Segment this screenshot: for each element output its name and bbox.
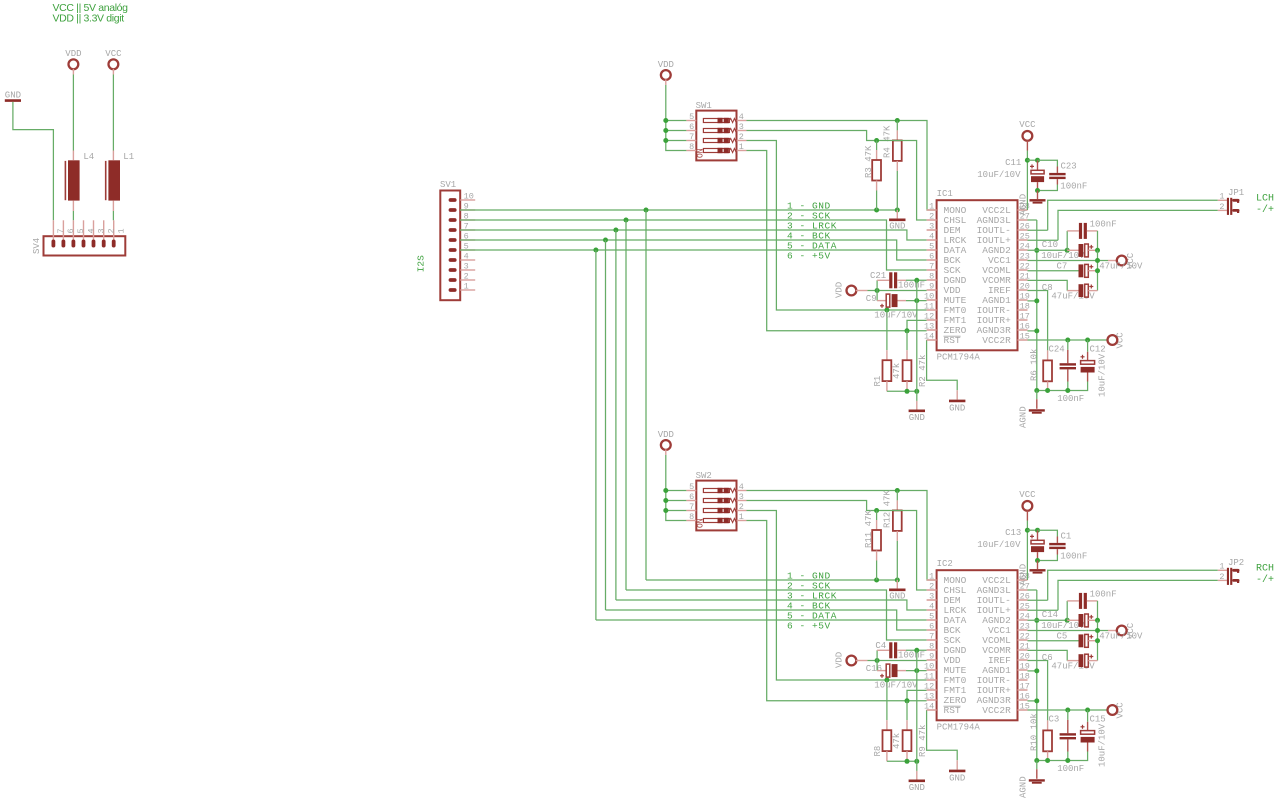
- svg-text:R8: R8: [873, 746, 883, 757]
- inductor L4: [65, 151, 94, 212]
- wire SW1 pin 3 to IC1 CHSL: [747, 131, 927, 221]
- junction VDD/SW1 pin 5: [663, 118, 668, 123]
- net label 2 - SCK: [787, 581, 831, 592]
- capacitor C10 10uF/10V: [1041, 240, 1097, 261]
- wire C16 to IC2 pin 10 MUTE: [906, 670, 927, 672]
- wire GND to SV4 pin 7: [13, 102, 54, 220]
- svg-text:6 - +5V: 6 - +5V: [787, 621, 831, 632]
- svg-text:1: 1: [117, 228, 127, 233]
- svg-text:C14: C14: [1042, 610, 1058, 620]
- svg-text:5: 5: [689, 112, 694, 122]
- capacitor C12 10uF/10V: [1068, 340, 1108, 397]
- junction GND2 / R12 / gnd symbol: [895, 578, 900, 583]
- svg-text:2: 2: [929, 582, 934, 592]
- svg-text:IC2: IC2: [937, 559, 953, 569]
- wire DATA drop to channel 2 (IC2 pin 5): [596, 250, 927, 620]
- junction SCK drop: [624, 218, 629, 223]
- connector SV4: [32, 220, 127, 255]
- supply VCC (IC1 VCC1): [1028, 252, 1137, 269]
- svg-text:LCH: LCH: [1256, 193, 1274, 204]
- svg-text:7: 7: [929, 632, 934, 642]
- svg-text:VDD: VDD: [658, 430, 674, 440]
- junction VCC2R/C12: [1085, 338, 1090, 343]
- wire C4 to IC2 pin 8 DGND: [906, 649, 927, 651]
- junction AGND rail / AGND symbol: [1034, 758, 1039, 763]
- svg-text:VCC: VCC: [1019, 490, 1036, 500]
- wire IC1 IOUTL+ to JP1 pin 2: [1028, 210, 1218, 240]
- wire R11 to GND rail: [876, 561, 878, 581]
- wire VCC to IC2 pin 28: [1026, 521, 1028, 581]
- svg-text:47k: 47k: [892, 733, 902, 749]
- ground AGND (analog): [1018, 761, 1045, 799]
- svg-text:R10 10k: R10 10k: [1029, 713, 1039, 751]
- wire VCC to C11: [1027, 159, 1037, 161]
- svg-text:C9: C9: [866, 294, 877, 304]
- net label 3 - LRCK: [787, 591, 837, 602]
- wire SW1 pin 1 to IC1 ZERO: [747, 151, 927, 331]
- svg-text:1: 1: [464, 282, 469, 292]
- wire IC1 FMT1 jog: [907, 320, 927, 330]
- svg-text:100nF: 100nF: [898, 650, 925, 660]
- svg-text:10uF/10V: 10uF/10V: [977, 540, 1021, 550]
- junction MONO/R12: [895, 488, 900, 493]
- wire VCC to L1: [112, 75, 114, 151]
- svg-text:3: 3: [464, 262, 469, 272]
- svg-text:R1: R1: [873, 376, 883, 387]
- svg-text:GND: GND: [889, 591, 905, 601]
- svg-text:1: 1: [739, 142, 744, 152]
- svg-text:6: 6: [66, 228, 76, 233]
- supply VCC (header): [105, 49, 122, 75]
- supply VDD (IC2 pin 9): [835, 652, 868, 668]
- svg-text:100nF: 100nF: [1060, 552, 1087, 562]
- svg-text:7: 7: [929, 262, 934, 272]
- junction VCC1: [1095, 628, 1100, 633]
- junction C10 right: [1095, 248, 1100, 253]
- ground GND (RST): [949, 390, 965, 413]
- svg-text:3: 3: [929, 222, 934, 232]
- svg-text:6: 6: [689, 122, 694, 132]
- wire C21 to IC1 pin 8 DGND: [906, 279, 927, 281]
- junction AGND rail / AGND symbol: [1034, 388, 1039, 393]
- junction DGND/C4: [914, 648, 919, 653]
- svg-text:ON: ON: [696, 518, 705, 528]
- junction FMT0/R8: [884, 678, 889, 683]
- net label 4 - BCK: [787, 231, 831, 242]
- wire VCC to IC1 pin 28: [1026, 151, 1028, 211]
- net label 5 - DATA: [787, 611, 837, 622]
- svg-text:-/+: -/+: [1256, 574, 1274, 586]
- net label 2 - SCK: [787, 211, 831, 222]
- svg-text:SW2: SW2: [696, 471, 712, 481]
- svg-text:IC1: IC1: [937, 189, 953, 199]
- supply VCC (IC2 pin 15): [1028, 702, 1126, 719]
- svg-text:VDD: VDD: [835, 652, 845, 668]
- svg-text:8: 8: [929, 642, 934, 652]
- inductor L1: [106, 151, 134, 212]
- svg-text:R4 47K: R4 47K: [882, 125, 892, 158]
- junction VCC2R/C24: [1065, 338, 1070, 343]
- svg-text:10: 10: [924, 662, 934, 672]
- svg-text:AGND: AGND: [1018, 776, 1028, 798]
- svg-text:10uF/10V: 10uF/10V: [1041, 621, 1085, 631]
- dip-switch SW2: [686, 471, 746, 530]
- capacitor C21 100nF: [870, 271, 925, 291]
- junction C14 left: [1065, 618, 1070, 623]
- capacitor C5 47uF/10V: [1028, 632, 1144, 648]
- svg-text:4: 4: [929, 232, 934, 242]
- svg-text:C3: C3: [1049, 715, 1060, 725]
- svg-text:C21: C21: [870, 271, 886, 281]
- wire IC2 IOUTL+ to JP2 pin 2: [1028, 580, 1218, 610]
- svg-text:6: 6: [929, 622, 934, 632]
- svg-text:18: 18: [1020, 672, 1030, 682]
- svg-text:4: 4: [739, 112, 744, 122]
- jumper JP1: [1218, 188, 1244, 215]
- svg-text:-/+: -/+: [1256, 204, 1274, 216]
- svg-text:9: 9: [929, 652, 934, 662]
- junction rail/DGND: [914, 759, 919, 764]
- svg-text:I2S: I2S: [416, 255, 427, 272]
- svg-text:3: 3: [739, 122, 744, 132]
- svg-text:R12 47K: R12 47K: [882, 490, 892, 528]
- junction C10 left: [1065, 248, 1070, 253]
- wire IC1 AGND2 to C10: [1028, 249, 1068, 251]
- junction GND / R3: [874, 208, 879, 213]
- svg-text:C11: C11: [1005, 158, 1021, 168]
- junction C11 bottom: [1035, 188, 1040, 193]
- supply VDD (SW1): [658, 60, 674, 85]
- wire SW1 pin 4 to IC1 MONO: [747, 121, 937, 211]
- junction GND2 / R11: [874, 578, 879, 583]
- svg-text:10uF/10V: 10uF/10V: [977, 170, 1021, 180]
- junction VDD/SW1 pin 7: [663, 138, 668, 143]
- svg-text:4: 4: [86, 228, 96, 233]
- junction FMT0/R1: [884, 308, 889, 313]
- svg-text:10: 10: [464, 192, 474, 202]
- wire DGND vertical: [916, 280, 918, 391]
- ground GND (input header): [5, 90, 21, 100]
- capacitor 100nF (filter): [1067, 589, 1116, 620]
- capacitor 100nF (filter): [1067, 219, 1116, 250]
- wire SCK drop to channel 2 (IC2 pin 7): [626, 220, 927, 640]
- svg-text:GND: GND: [909, 413, 925, 423]
- svg-text:RST: RST: [944, 335, 961, 346]
- svg-text:7: 7: [689, 502, 694, 512]
- wire IC2 AGND3L/AGND2/AGND1/AGND3R to AGND rail: [1028, 590, 1037, 761]
- junction AGND2: [1034, 248, 1039, 253]
- svg-text:10: 10: [924, 292, 934, 302]
- capacitor C23 100nF: [1038, 160, 1088, 191]
- wire SW2 pin 1 to IC2 ZERO: [747, 521, 927, 701]
- svg-text:11: 11: [924, 672, 934, 682]
- net label I2S: [416, 255, 427, 272]
- capacitor C3 100nF: [1049, 710, 1085, 774]
- junction DATA drop: [593, 248, 598, 253]
- junction VCC/C13: [1025, 528, 1030, 533]
- svg-text:VCC2R: VCC2R: [982, 705, 1011, 716]
- junction VDD/SW2 pin 6: [663, 498, 668, 503]
- junction VCC2R/C15: [1085, 708, 1090, 713]
- svg-text:7: 7: [689, 132, 694, 142]
- svg-text:AGND: AGND: [1018, 406, 1028, 428]
- svg-text:JP2: JP2: [1228, 558, 1244, 568]
- junction C5 right: [1095, 638, 1100, 643]
- svg-text:10uF/10V: 10uF/10V: [1041, 251, 1085, 261]
- connector SV1: [440, 180, 475, 300]
- wire net GND (SV1 pin 9): [460, 209, 897, 211]
- resistor R11: [864, 510, 881, 561]
- supply VCC (IC1 pin 28): [1019, 120, 1036, 150]
- wire VCOM common vertical: [1097, 620, 1099, 660]
- svg-text:4: 4: [929, 602, 934, 612]
- svg-text:GND: GND: [949, 403, 965, 413]
- svg-text:GND: GND: [5, 90, 21, 100]
- wire IC2 FMT1 jog: [907, 690, 927, 700]
- svg-text:VCC: VCC: [1019, 120, 1036, 130]
- wire R1/R2 ground rail: [887, 390, 917, 392]
- svg-text:9: 9: [929, 282, 934, 292]
- wire R8/R9 ground rail: [887, 760, 917, 762]
- svg-text:C4: C4: [875, 641, 886, 651]
- junction VDD/C21/C9: [875, 288, 880, 293]
- ground GND (digital): [909, 391, 925, 423]
- resistor R4: [882, 121, 901, 171]
- svg-text:5: 5: [689, 482, 694, 492]
- junction AGND rail / R6: [1045, 388, 1050, 393]
- junction AGND1: [1034, 668, 1039, 673]
- net label 6 - +5V: [787, 621, 831, 632]
- svg-text:10uF/10V: 10uF/10V: [874, 311, 918, 321]
- junction AGND1: [1034, 298, 1039, 303]
- svg-text:VDD: VDD: [65, 49, 81, 59]
- junction ZERO/FMT1/R9: [905, 698, 910, 703]
- capacitor C1 100nF: [1038, 530, 1088, 561]
- junction DGND/C21: [914, 278, 919, 283]
- junction VDD/SW2 pin 5: [663, 488, 668, 493]
- junction VCC1: [1095, 258, 1100, 263]
- wire DGND vertical: [916, 650, 918, 761]
- wire IC2 AGND2 to C14: [1028, 619, 1068, 621]
- junction rail/DGND: [914, 389, 919, 394]
- svg-text:RST: RST: [944, 705, 961, 716]
- svg-text:12: 12: [924, 312, 934, 322]
- svg-text:VDD || 3.3V digit: VDD || 3.3V digit: [53, 13, 125, 25]
- svg-text:C10: C10: [1042, 240, 1058, 250]
- dip-switch SW1: [686, 101, 746, 160]
- junction C13 top: [1035, 528, 1040, 533]
- wire IC1 AGND3L/AGND2/AGND1/AGND3R to AGND rail: [1028, 220, 1037, 391]
- svg-text:1: 1: [929, 572, 934, 582]
- net label 1 - GND: [787, 201, 831, 212]
- svg-text:5: 5: [929, 612, 934, 622]
- junction VCC2R/C3: [1065, 708, 1070, 713]
- svg-text:6 - +5V: 6 - +5V: [787, 251, 831, 262]
- capacitor C24 100nF: [1049, 340, 1085, 404]
- wire VCOM common vertical: [1097, 250, 1099, 290]
- junction C7 right: [1095, 268, 1100, 273]
- svg-text:14: 14: [924, 332, 934, 342]
- junction rail/R2: [905, 389, 910, 394]
- resistor R10 10k: [1028, 661, 1053, 761]
- op-amp IC2 PCM1794A body: [924, 559, 1030, 733]
- svg-text:PCM1794A: PCM1794A: [937, 723, 981, 733]
- wire C9 to IC1 pin 10 MUTE: [906, 300, 927, 302]
- svg-text:R6 10k: R6 10k: [1029, 349, 1039, 381]
- wire net SCK (SV1 pin 8 to IC1 pin 7): [460, 220, 927, 270]
- junction AGND3R: [1034, 328, 1039, 333]
- wire SW2 pin 4 to IC2 MONO: [747, 491, 937, 581]
- capacitor C11 10uF/10V: [977, 158, 1044, 190]
- wire SW2 pin 2 to IC2 FMT0: [747, 511, 927, 681]
- svg-text:6: 6: [689, 492, 694, 502]
- svg-text:RCH: RCH: [1256, 563, 1274, 574]
- junction VCC/C11: [1025, 158, 1030, 163]
- junction AGND3R: [1034, 698, 1039, 703]
- net label 1 - GND: [787, 571, 831, 582]
- wire BCK drop to channel 2 (IC2 pin 6): [606, 240, 927, 630]
- svg-text:47k: 47k: [892, 363, 902, 379]
- junction ZERO/FMT1/R2: [905, 328, 910, 333]
- capacitor C7 47uF/10V: [1028, 262, 1144, 278]
- junction MONO/R4: [895, 118, 900, 123]
- svg-text:4: 4: [464, 252, 469, 262]
- svg-text:L1: L1: [123, 152, 134, 162]
- junction GND drop: [644, 208, 649, 213]
- ground GND (RST): [949, 760, 965, 783]
- svg-text:19: 19: [1020, 662, 1030, 672]
- svg-text:18: 18: [1020, 302, 1030, 312]
- svg-text:1: 1: [929, 202, 934, 212]
- wire L1 to SV4 pin 1: [112, 211, 114, 220]
- junction CHSL/R3: [874, 138, 879, 143]
- wire net LRCK (SV1 pin 7 to IC1 pin 4): [460, 230, 927, 240]
- svg-text:2: 2: [464, 272, 469, 282]
- supply VDD (SW2): [658, 430, 674, 455]
- junction VDD/C4/C16: [875, 658, 880, 663]
- wire GND drop to channel 2: [646, 210, 897, 580]
- junction LRCK drop: [613, 228, 618, 233]
- svg-text:VDD: VDD: [658, 60, 674, 70]
- resistor R9: [903, 701, 929, 762]
- svg-text:GND: GND: [909, 783, 925, 793]
- resistor R6 10k: [1028, 291, 1053, 391]
- wire IC1 RST to ground: [927, 340, 958, 390]
- junction C11 top: [1035, 158, 1040, 163]
- svg-text:11: 11: [924, 302, 934, 312]
- svg-text:2: 2: [929, 212, 934, 222]
- svg-text:C1: C1: [1061, 532, 1072, 542]
- svg-text:AGND: AGND: [1018, 564, 1028, 586]
- resistor R2: [903, 331, 929, 392]
- svg-text:100nF: 100nF: [1090, 589, 1117, 599]
- wire LRCK drop to channel 2 (IC2 pin 4): [616, 230, 927, 610]
- junction rail/R9: [905, 759, 910, 764]
- svg-text:100nF: 100nF: [1057, 394, 1084, 404]
- svg-text:5: 5: [929, 242, 934, 252]
- svg-text:100nF: 100nF: [1060, 182, 1087, 192]
- svg-text:GND: GND: [889, 221, 905, 231]
- svg-text:PCM1794A: PCM1794A: [937, 353, 981, 363]
- svg-text:10uF/10V: 10uF/10V: [1098, 353, 1108, 397]
- svg-text:19: 19: [1020, 292, 1030, 302]
- svg-text:C15: C15: [1090, 715, 1106, 725]
- svg-text:SV4: SV4: [32, 238, 42, 254]
- svg-text:12: 12: [924, 682, 934, 692]
- capacitor C9 10uF/10V: [866, 291, 918, 321]
- junction AGND rail / C24: [1065, 388, 1070, 393]
- svg-text:2: 2: [739, 132, 744, 142]
- junction AGND rail / C3: [1065, 758, 1070, 763]
- resistor R8: [873, 680, 902, 761]
- junction MUTE/C16/DGND: [914, 668, 919, 673]
- svg-text:ON: ON: [696, 148, 705, 158]
- svg-text:VCC2R: VCC2R: [982, 335, 1011, 346]
- svg-text:17: 17: [1020, 682, 1030, 692]
- svg-text:10uF/10V: 10uF/10V: [1098, 723, 1108, 767]
- svg-text:C13: C13: [1005, 528, 1021, 538]
- svg-text:C16: C16: [866, 664, 882, 674]
- wire net DATA (SV1 pin 5 to IC1 pin 5): [460, 249, 927, 251]
- junction AGND2: [1034, 618, 1039, 623]
- ground AGND (analog): [1018, 391, 1045, 429]
- svg-text:GND: GND: [949, 773, 965, 783]
- junction MUTE/C9/DGND: [914, 298, 919, 303]
- ground GND (input rail): [889, 580, 905, 601]
- ground AGND (VCC2L): [1018, 561, 1045, 586]
- junction AGND rail / R10: [1045, 758, 1050, 763]
- svg-text:16: 16: [1020, 322, 1030, 332]
- svg-text:C23: C23: [1061, 162, 1077, 172]
- resistor R1: [873, 310, 902, 391]
- supply VCC (IC2 pin 28): [1019, 490, 1036, 520]
- capacitor C13 10uF/10V: [977, 528, 1044, 560]
- net label 5 - DATA: [787, 241, 837, 252]
- junction VDD/SW1 pin 6: [663, 128, 668, 133]
- svg-text:100nF: 100nF: [1057, 764, 1084, 774]
- wire L4 to SV4 pin 5: [72, 211, 74, 220]
- junction BCK drop: [603, 238, 608, 243]
- svg-text:13: 13: [924, 322, 934, 332]
- capacitor C4 100nF: [875, 641, 925, 661]
- junction C13 bottom: [1035, 558, 1040, 563]
- supply VDD (header): [65, 49, 81, 75]
- svg-text:3: 3: [929, 592, 934, 602]
- svg-text:2: 2: [739, 502, 744, 512]
- svg-text:17: 17: [1020, 312, 1030, 322]
- wire SW1 pin 2 to IC1 FMT0: [747, 141, 927, 311]
- ground GND (digital): [909, 761, 925, 793]
- capacitor C6 47uF/10V: [1028, 650, 1098, 671]
- net label RCH: [1256, 563, 1274, 585]
- wire R12 to GND rail: [896, 541, 898, 580]
- wire R3 to GND rail: [876, 191, 878, 211]
- svg-text:1: 1: [739, 512, 744, 522]
- wire VDD to IC1 pin 9: [868, 290, 927, 292]
- svg-text:SV1: SV1: [440, 180, 456, 190]
- svg-text:JP1: JP1: [1228, 188, 1244, 198]
- legend text VCC/VDD: [53, 2, 129, 25]
- wire AGND rail: [1037, 760, 1068, 762]
- wire IC2 IOUTL- to JP2 pin 1: [1028, 570, 1218, 600]
- svg-text:VCC: VCC: [105, 49, 122, 59]
- junction C14 right: [1095, 618, 1100, 623]
- svg-text:C12: C12: [1090, 345, 1106, 355]
- svg-text:13: 13: [924, 692, 934, 702]
- wire R4 to GND rail: [896, 171, 898, 210]
- svg-text:C24: C24: [1049, 345, 1065, 355]
- capacitor C14 10uF/10V: [1041, 610, 1097, 631]
